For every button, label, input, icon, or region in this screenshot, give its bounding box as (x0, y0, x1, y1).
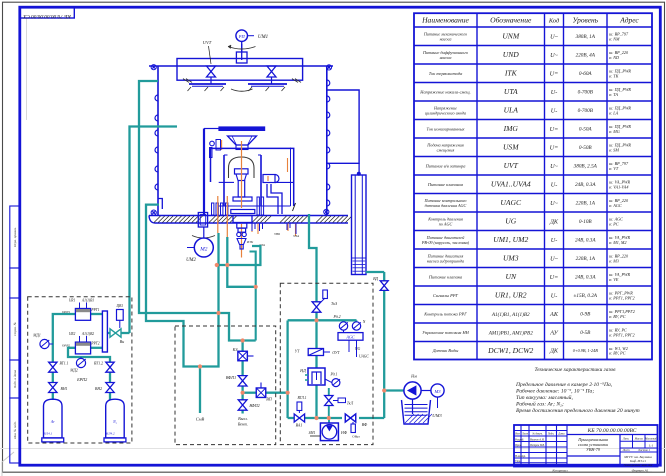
svg-text:UG: UG (355, 347, 361, 351)
svg-text:Инв. № подл.: Инв. № подл. (13, 421, 17, 440)
svg-text:ВП: ВП (266, 397, 273, 402)
svg-text:0-700В: 0-700В (578, 89, 594, 95)
gas cylinder N2 (104, 399, 126, 442)
svg-text:МД1: МД1 (32, 334, 41, 338)
svg-text:Управление потоком НН: Управление потоком НН (422, 330, 469, 335)
right feedthrough port (263, 175, 279, 183)
manifold plate (102, 311, 107, 352)
svg-text:Петров В.В.: Петров В.В. (529, 444, 545, 447)
svg-text:Время достижения предельного д: Время достижения предельного давления 20… (516, 407, 640, 414)
svg-text:А1(1)В2: А1(1)В2 (81, 332, 94, 336)
crucible funnel (228, 136, 257, 150)
svg-text:IMG: IMG (503, 124, 519, 133)
svg-text:UNM: UNM (502, 32, 520, 41)
svg-text:Аr: Аr (50, 420, 55, 424)
flow regulator RRG2 (62, 332, 100, 354)
dashed box roughing unit (175, 326, 276, 445)
table row IMG (426, 124, 631, 134)
svg-text:А1(1)В1: А1(1)В1 (81, 299, 94, 303)
chamber base plate hatched (149, 216, 352, 224)
svg-text:0-60А: 0-60А (579, 71, 593, 77)
table row UND (422, 50, 629, 60)
AGC box (338, 330, 369, 358)
svg-text:цилиндрического анода: цилиндрического анода (425, 110, 466, 115)
gauge PG1 (325, 373, 340, 387)
svg-text:Перв. примен.: Перв. примен. (13, 227, 17, 248)
pipe: AGC sensor branch (288, 320, 357, 322)
dashed box gas panel (28, 297, 132, 443)
valve VN2 (95, 383, 114, 393)
mechanical pump NM (404, 374, 421, 415)
title block (stamp) (514, 425, 658, 472)
svg-text:U-: U- (551, 237, 558, 244)
svg-text:Масса: Масса (634, 436, 644, 440)
svg-text:ОРР1: ОРР1 (62, 310, 71, 314)
svg-text:Адрес: Адрес (619, 16, 639, 25)
svg-text:РРГ1: РРГ1 (90, 308, 99, 312)
svg-text:РРГ2: РРГ2 (90, 342, 99, 346)
chamber lid box (177, 59, 303, 83)
valve VA1 with actuator (294, 396, 307, 428)
motor RP drive UM1 (228, 30, 268, 63)
motor M2 UM2 (186, 213, 215, 264)
svg-text:Электронное маш-ние: Электронное маш-ние (624, 463, 653, 467)
table row ULA (425, 105, 632, 115)
svg-text:Рабочий газ: Ar; N₂;: Рабочий газ: Ar; N₂; (515, 401, 564, 408)
svg-text:ОРР2: ОРР2 (62, 344, 71, 348)
substrate holder right (248, 66, 287, 91)
svg-text:UR2: UR2 (69, 332, 76, 336)
svg-text:в: LA: в: LA (609, 110, 619, 115)
svg-text:DCW1, DCW2: DCW1, DCW2 (487, 346, 533, 355)
table row UAGC (423, 198, 629, 208)
svg-text:0-9В: 0-9В (580, 311, 591, 317)
svg-text:УЛА: УЛА (293, 234, 299, 238)
svg-text:БРП2: БРП2 (76, 377, 87, 382)
gauge N (352, 320, 365, 330)
electron gun stack (231, 169, 255, 214)
svg-text:0-50В: 0-50В (579, 145, 593, 151)
svg-text:Справ. №: Справ. № (13, 321, 17, 336)
svg-text:0-700В: 0-700В (578, 108, 594, 114)
pipe: evaporator cooling loop (217, 246, 261, 265)
gauge MD2 (69, 357, 85, 373)
table row USM (426, 142, 631, 152)
diffusion pump ND (299, 368, 325, 385)
svg-text:Утв.: Утв. (515, 460, 521, 463)
svg-text:Пров.: Пров. (514, 444, 522, 447)
svg-text:Рд.2: Рд.2 (333, 315, 341, 319)
svg-text:USM: USM (503, 143, 519, 152)
scan artifact gray lines (0, 448, 666, 450)
svg-text:U=: U= (550, 144, 559, 151)
svg-text:Обозначение: Обозначение (490, 16, 532, 25)
inner shield box (211, 148, 294, 207)
svg-text:UM2: UM2 (186, 258, 196, 263)
svg-text:U=: U= (550, 274, 559, 281)
svg-text:ВФП1: ВФП1 (226, 375, 236, 380)
pipe: gas inlet riser to chamber (130, 127, 178, 334)
table row UM3 (427, 253, 629, 263)
svg-text:УВН-79: УВН-79 (586, 447, 601, 452)
svg-text:УВБ: УВБ (274, 232, 280, 236)
svg-text:220В, 4А: 220В, 4А (576, 51, 596, 58)
gas cylinder Ar (42, 399, 64, 442)
table row UR1, UR2 (433, 291, 635, 302)
water bucket (402, 400, 433, 424)
valve TkZ with actuator (312, 290, 337, 312)
svg-text:220В, 1А: 220В, 1А (576, 256, 596, 262)
svg-text:U~: U~ (550, 52, 558, 59)
svg-text:UM3: UM3 (503, 254, 519, 263)
svg-text:0-5В: 0-5В (580, 330, 591, 336)
valve VN1 (49, 383, 68, 393)
pipe to mechanical pump (384, 389, 404, 391)
motor M3 (421, 384, 444, 418)
table row UVA1..UVA4 (427, 180, 631, 190)
valve VFP2 (238, 400, 259, 410)
flow regulator RRG1 (62, 299, 100, 321)
svg-text:в: VE: в: VE (609, 277, 619, 282)
pipe: drain branch (196, 367, 205, 422)
svg-text:24В, 0.3А: 24В, 0.3А (575, 236, 596, 243)
svg-text:АGC: АGC (345, 334, 355, 339)
svg-text:0-50А: 0-50А (579, 126, 593, 132)
table row UM1, UM2 (421, 235, 631, 246)
svg-text:24В, 0.3А: 24В, 0.3А (575, 273, 596, 280)
svg-text:Выхл.: Выхл. (238, 416, 248, 421)
svg-text:U~: U~ (550, 33, 558, 40)
svg-text:Уровень: Уровень (572, 16, 598, 25)
chamber corner bolts (151, 65, 332, 216)
table row UVT (425, 161, 629, 171)
svg-text:Подп.: Подп. (547, 433, 555, 436)
carousel rotation arc below lid (231, 89, 253, 91)
table row ITK (429, 69, 632, 79)
svg-text:Напряжение накала-смещ.: Напряжение накала-смещ. (419, 89, 470, 94)
svg-text:№ докум.: № докум. (531, 433, 543, 436)
svg-text:U=: U= (550, 70, 559, 77)
svg-text:датчика давления AGC: датчика давления AGC (425, 203, 467, 208)
svg-text:Вент.: Вент. (238, 422, 248, 427)
inner shield left post and top bar (204, 127, 265, 215)
svg-text:БЛ4.1: БЛ4.1 (43, 432, 53, 436)
svg-text:Иванов А.И.: Иванов А.И. (529, 438, 545, 441)
bell dome (dark outline) (229, 157, 255, 178)
svg-text:Лист: Лист (621, 448, 630, 452)
table row DCW1, DCW2 (432, 346, 628, 357)
svg-text:Контроль потока РРГ: Контроль потока РРГ (423, 311, 467, 316)
svg-text:Формат А1: Формат А1 (632, 468, 649, 472)
svg-text:UN: UN (505, 272, 516, 281)
svg-text:ВФП2: ВФП2 (249, 403, 259, 408)
bent J tube (267, 184, 282, 214)
svg-text:Изм: Изм (514, 433, 520, 436)
table row UG (427, 216, 623, 226)
svg-text:±15В, 0.2А: ±15В, 0.2А (574, 293, 598, 299)
svg-text:Н.контр.: Н.контр. (514, 455, 526, 458)
svg-text:UTA: UTA (504, 87, 518, 96)
svg-text:НФ: НФ (340, 430, 348, 435)
svg-text:ДК: ДК (549, 348, 559, 355)
svg-text:ВД: ВД (373, 276, 378, 281)
trap connection node (357, 163, 361, 176)
pipe: second header from chamber bottom port (146, 205, 219, 367)
valve VP (256, 383, 273, 402)
dashed box pump unit (280, 283, 373, 444)
svg-text:М3: М3 (433, 389, 441, 394)
support posts on base (212, 197, 264, 215)
technical characteristics note (515, 367, 640, 414)
valve VF with stem (345, 414, 368, 439)
svg-text:в: ND: в: ND (609, 55, 619, 60)
svg-text:Рабочее давление: 10⁻², 10⁻¹ П: Рабочее давление: 10⁻², 10⁻¹ Па; (515, 388, 594, 395)
wall bottom port bracket (158, 199, 162, 210)
vacuum chamber walls (149, 66, 333, 215)
svg-text:380В, 1А: 380В, 1А (576, 34, 596, 40)
svg-text:U~: U~ (550, 163, 558, 170)
svg-text:Наименование: Наименование (421, 16, 469, 25)
thermocouple gauge UT (295, 349, 341, 356)
svg-text:UVA1..UVA4: UVA1..UVA4 (491, 180, 531, 189)
svg-text:U~: U~ (550, 255, 558, 262)
svg-text:ВФ: ВФ (362, 422, 368, 427)
table row А1(1)В1, А1(1)В2 (423, 309, 635, 320)
svg-text:М2: М2 (199, 246, 207, 252)
svg-text:в: М3: в: М3 (609, 258, 619, 263)
svg-text:АМ1)РВ1, АМ1)РВ2: АМ1)РВ1, АМ1)РВ2 (488, 330, 533, 337)
svg-text:Нм: Нм (410, 374, 417, 379)
svg-text:ТкЛ: ТкЛ (347, 402, 354, 406)
svg-text:в: VA1-VA4: в: VA1-VA4 (609, 184, 628, 189)
forevacuum pump NF (309, 418, 348, 441)
svg-text:UM3: UM3 (432, 413, 442, 418)
pipe: evaporator cooling inner (250, 252, 256, 341)
svg-text:в: ТК: в: ТК (609, 73, 619, 78)
table row UTA (419, 87, 631, 97)
svg-text:Масштаб: Масштаб (644, 437, 657, 440)
junction dots (198, 263, 386, 420)
svg-text:Питание в/в затвора: Питание в/в затвора (425, 163, 467, 168)
bypass valve TkL (325, 388, 354, 418)
svg-text:АК: АК (549, 311, 559, 318)
svg-text:UAGC: UAGC (500, 198, 522, 207)
svg-text:в: VT: в: VT (609, 166, 619, 171)
svg-text:Сигналы РРГ: Сигналы РРГ (433, 293, 459, 298)
svg-text:U-: U- (551, 292, 558, 299)
svg-text:КБ 70.00.00.00.00ВС: КБ 70.00.00.00.00ВС (587, 428, 637, 434)
svg-text:U~: U~ (550, 200, 558, 207)
svg-text:смещения: смещения (437, 147, 455, 152)
vent label (238, 416, 248, 427)
svg-text:АУ: АУ (549, 329, 558, 336)
svg-text:ВН2: ВН2 (95, 387, 102, 391)
table row UN (428, 272, 631, 282)
svg-text:КБ 70.00.00.00.00 СХ: КБ 70.00.00.00.00 СХ (22, 13, 72, 19)
svg-text:Лист: Лист (521, 433, 528, 436)
svg-text:UAGC: UAGC (359, 355, 369, 359)
svg-text:НД: НД (299, 368, 306, 373)
svg-text:по AGC: по AGC (439, 221, 453, 226)
svg-text:UVT: UVT (504, 161, 519, 170)
svg-text:U-: U- (551, 181, 558, 188)
svg-text:насоса: насоса (440, 55, 452, 60)
svg-text:380В, 2.5А: 380В, 2.5А (574, 163, 598, 169)
svg-text:Питание клапана: Питание клапана (428, 274, 463, 279)
pipe: VP bypass line (243, 321, 288, 419)
svg-text:СмВ: СмВ (196, 417, 205, 422)
svg-text:МД2: МД2 (69, 369, 78, 373)
small feedthrough stems below plate (252, 203, 296, 234)
svg-text:Рд.1: Рд.1 (330, 373, 338, 377)
table header row (421, 16, 639, 25)
foreline bottom manifold (288, 291, 385, 419)
svg-text:220В, 1А: 220В, 1А (576, 200, 596, 206)
svg-text:U-: U- (551, 107, 558, 114)
svg-text:в: MG: в: MG (609, 129, 620, 134)
svg-text:А1(1)В1, А1(1)В2: А1(1)В1, А1(1)В2 (491, 311, 530, 318)
svg-text:Разраб.: Разраб. (514, 438, 524, 441)
svg-text:ВТЛ.1: ВТЛ.1 (297, 396, 306, 400)
svg-text:1:1: 1:1 (649, 443, 654, 447)
svg-text:Датчик Воды: Датчик Воды (432, 348, 459, 353)
svg-text:0-10В: 0-10В (579, 219, 593, 225)
svg-text:Предельное давление в камере 2: Предельное давление в камере 2·10⁻⁵Па, (515, 381, 613, 388)
gas line inside panel (53, 314, 130, 400)
table row UNM (423, 31, 629, 41)
valve VT1.2 (94, 362, 114, 373)
svg-text:ВА1: ВА1 (296, 423, 303, 428)
pipe: chamber center to foreline (227, 237, 255, 287)
hi-vac shutter valve UVT (203, 40, 212, 64)
svg-text:ОВал: ОВал (352, 435, 360, 439)
svg-text:ULA: ULA (504, 106, 519, 115)
chamber wall flange bumps left (155, 95, 158, 190)
svg-text:U-: U- (551, 89, 558, 96)
hi-vac valve housing right of chamber (327, 90, 359, 163)
substrate holder left (188, 66, 227, 91)
valve KZ (232, 347, 254, 361)
svg-text:ИТК: ИТК (246, 240, 254, 244)
svg-text:Питание клапанов: Питание клапанов (427, 182, 463, 187)
svg-text:насоса: насоса (440, 36, 452, 41)
svg-text:в: NM: в: NM (609, 36, 620, 41)
panel valve Vn with actuator (110, 304, 124, 344)
svg-text:N: N (362, 320, 366, 324)
center feedthrough stack below plate (233, 216, 252, 250)
svg-text:ВТ1.1: ВТ1.1 (60, 362, 69, 366)
table row АМ1)РВ1, АМ1)РВ2 (422, 328, 634, 339)
svg-text:Ток ионизированных: Ток ионизированных (426, 126, 464, 131)
svg-text:ДК: ДК (549, 218, 559, 225)
wires orange feedthroughs (218, 141, 296, 258)
svg-text:UM1, UM2: UM1, UM2 (493, 235, 528, 244)
svg-text:Подп. и дата: Подп. и дата (13, 370, 17, 390)
gauge MD1 (32, 334, 53, 349)
svg-text:в: PC: в: PC (609, 221, 619, 226)
svg-text:N₂: N₂ (112, 420, 118, 424)
svg-text:ITK: ITK (504, 69, 518, 78)
nitrogen trap tube (352, 175, 367, 275)
svg-text:Листов 1: Листов 1 (637, 448, 651, 452)
svg-text:Дата: Дата (557, 433, 565, 436)
svg-text:Вн: Вн (120, 339, 124, 344)
svg-text:ВТ1.2: ВТ1.2 (94, 362, 103, 366)
svg-text:UND: UND (503, 50, 520, 59)
svg-text:24В, 0.3А: 24В, 0.3А (575, 181, 596, 188)
pipe: chamber upper-left port to roughing header (139, 81, 256, 341)
valve VFP1 (226, 375, 247, 386)
svg-text:UVT: UVT (203, 40, 212, 45)
svg-text:в: AGC: в: AGC (609, 203, 622, 208)
svg-text:Копировал: Копировал (551, 468, 568, 472)
trap foreline valve VD (366, 272, 388, 290)
svg-text:UM1: UM1 (258, 35, 268, 40)
chamber wall flange bumps right (327, 80, 330, 206)
pipe: KZ valve branch (241, 341, 243, 414)
svg-text:ВН1: ВН1 (61, 387, 68, 391)
svg-text:Лит.: Лит. (622, 436, 630, 440)
svg-text:UR1: UR1 (69, 299, 76, 303)
svg-text:UR1, UR2: UR1, UR2 (495, 291, 527, 300)
svg-text:ЦВ1: ЦВ1 (116, 304, 124, 308)
svg-text:Тип вакуума: масляный,: Тип вакуума: масляный, (516, 394, 573, 401)
svg-text:насоса гидропривода: насоса гидропривода (427, 258, 464, 263)
svg-text:в: SM: в: SM (609, 147, 619, 152)
svg-text:Ток термокатода: Ток термокатода (429, 71, 463, 76)
valve VT1.1 (49, 362, 69, 373)
svg-text:Технические характеристики газ: Технические характеристики газов (534, 367, 616, 373)
svg-text:ЗМ1: ЗМ1 (309, 431, 316, 435)
svg-text:БЛ4.2: БЛ4.2 (105, 432, 115, 436)
svg-text:ОУТ: ОУТ (332, 351, 340, 355)
svg-text:U=: U= (550, 126, 559, 133)
pipe: main pump column (309, 214, 317, 418)
svg-text:UG: UG (505, 217, 516, 226)
left margin designation boxes (10, 206, 20, 463)
svg-text:ТкЗ: ТкЗ (331, 301, 337, 306)
svg-text:в: ТА: в: ТА (609, 92, 618, 97)
feedthrough labels (246, 232, 299, 247)
svg-text:Код: Код (548, 18, 560, 25)
svg-text:КЗ: КЗ (232, 347, 238, 352)
signal table grid (414, 13, 652, 359)
top-left corner document number stamp (20, 7, 75, 18)
gauge PG2 (333, 315, 348, 330)
svg-text:РП: РП (238, 34, 246, 39)
